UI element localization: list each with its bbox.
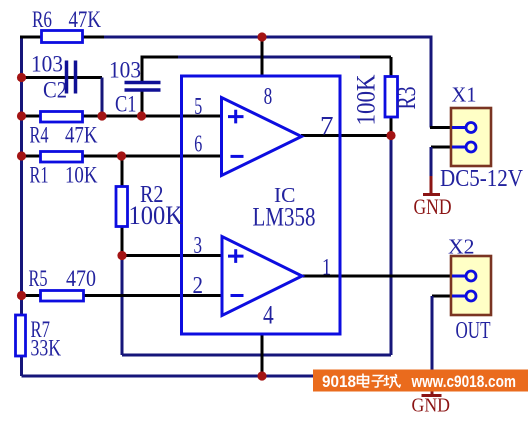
wire X2 pin2 stub black [432,295,452,298]
connector X2 box [451,256,491,315]
gnd X1 bar [423,193,440,196]
gnd X2 stub [431,388,434,396]
svg-text:4: 4 [263,301,274,330]
wire R2 net drop to rail A [121,256,124,356]
wire pin4 stub [261,334,264,376]
wire X1 pin2 stub black [431,146,452,149]
resistor R4 [41,112,83,123]
wire X1 pin2 blue [452,146,466,149]
wire R3 top stub [390,57,393,78]
capacitor C2 plates [67,61,76,94]
svg-text:R1: R1 [30,163,49,188]
wire top rail left stub [20,36,43,39]
wire X1 pin1 blue [452,126,466,129]
wire rail2 right stub black [360,56,391,59]
wire pin5 row [22,115,222,118]
op-amp B triangle [222,237,302,316]
wire rail B ground [22,375,436,378]
connector X1 pin1 circle [466,123,476,133]
wire pin3 row [122,254,222,257]
connector X1 pin2 circle [466,142,476,152]
svg-text:OUT: OUT [456,318,491,344]
wire pin6 row [22,155,222,158]
svg-text:3: 3 [194,233,203,259]
wire X2 pin2 blue [452,295,466,298]
svg-text:470: 470 [66,266,96,291]
gnd X1 stub [430,176,433,195]
svg-text:C1: C1 [115,92,137,117]
op-amp B minus [231,294,244,297]
resistor R6 [42,31,83,43]
op-amp A triangle [222,98,302,176]
wire X1 gnd drop [430,147,433,177]
svg-text:47K: 47K [65,123,98,148]
svg-text:R4: R4 [30,123,49,148]
wire C2 row [22,76,103,79]
svg-text:100K: 100K [129,201,184,230]
svg-text:GND: GND [414,194,452,219]
wire pin8 stub [261,37,264,76]
capacitor C1 plates [125,83,161,91]
wire C1 bottom stub [141,89,144,116]
connector X2 pin2 circle [466,291,476,301]
svg-text:100K: 100K [351,74,380,125]
wire pin1 row [301,275,452,278]
svg-text:www.c9018.com: www.c9018.com [411,372,516,391]
wire R2 top stub [121,156,124,187]
svg-text:DC5-12V: DC5-12V [440,166,524,192]
svg-text:103: 103 [109,58,141,83]
wire C2 right drop [101,78,104,117]
op-amp A minus [231,155,244,158]
watermark glyph zi [372,376,385,388]
wire R2 bottom stub [121,226,124,256]
wire pin2 row [22,294,223,297]
wire rail A y355 [122,354,391,357]
svg-text:LM358: LM358 [253,203,316,232]
wire pin7 row [301,134,391,137]
svg-text:X2: X2 [448,235,475,259]
resistor R5 [41,291,84,302]
resistor R1 [41,152,83,163]
svg-text:C2: C2 [43,78,67,103]
svg-text:10K: 10K [65,163,98,188]
op-amp A plus [228,110,244,124]
svg-text:33K: 33K [31,336,62,361]
wire X2 pin1 blue [452,275,466,278]
wire feedback vertical x391 [390,136,393,356]
wire R3 bottom stub [390,115,393,136]
svg-text:X1: X1 [452,83,477,107]
svg-text:47K: 47K [69,7,102,32]
resistor R3 [385,77,398,118]
connector X2 pin1 circle [466,271,476,281]
svg-text:R6: R6 [32,7,52,32]
wire C1 top stub [141,56,144,84]
watermark glyph cheng [384,374,401,388]
svg-text:8: 8 [264,84,273,110]
svg-text:5: 5 [194,94,202,120]
svg-text:GND: GND [412,396,451,417]
wire X2 gnd drop [431,296,434,390]
watermark banner [313,370,528,392]
wire top rail V+ [41,37,431,128]
wire rail2 C1-R3 [142,56,391,59]
svg-text:9018: 9018 [322,372,356,391]
IC box U1 [182,76,341,334]
svg-text:1: 1 [322,255,331,280]
junction dots [17,73,26,82]
svg-text:2: 2 [193,273,204,299]
op-amp B plus [228,249,244,263]
gnd X2 bar [422,394,442,397]
svg-text:103: 103 [31,52,63,77]
watermark glyph dian [358,374,369,388]
svg-text:6: 6 [194,132,202,158]
wire left column [20,37,23,376]
connector X1 box [451,108,491,166]
wire R6 right stub [82,36,104,39]
wire rail2 left stub black [142,56,178,59]
svg-text:R3: R3 [392,87,421,110]
resistor R2 [116,187,128,227]
svg-text:7: 7 [320,112,334,141]
svg-text:R5: R5 [29,266,48,291]
resistor R7 [16,315,26,356]
wire X1 pin1 stub black [430,126,452,129]
